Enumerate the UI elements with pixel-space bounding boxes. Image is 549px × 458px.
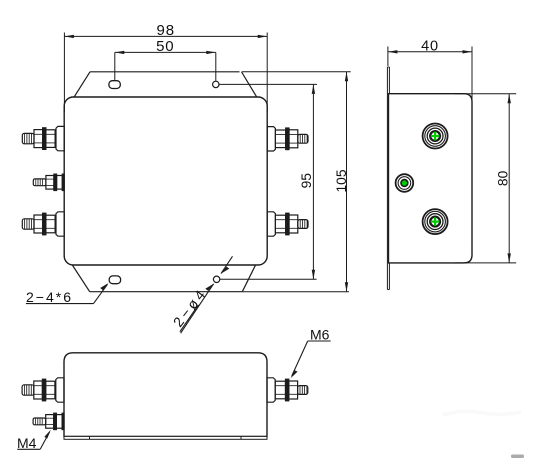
svg-text:M6: M6 bbox=[310, 327, 330, 343]
svg-text:40: 40 bbox=[421, 38, 439, 54]
mounting hole bottom-right bbox=[213, 276, 219, 282]
svg-text:2−4*6: 2−4*6 bbox=[26, 289, 73, 305]
dim 105 extension lines bbox=[242, 71, 351, 73]
dim 95 line bbox=[312, 84, 314, 279]
dim 98 extension lines bbox=[63, 33, 65, 113]
front body bbox=[64, 97, 267, 265]
side terminal middle (M4 face) bbox=[396, 174, 414, 192]
front bottom flange left chamfer bbox=[72, 265, 89, 292]
front top flange left chamfer bbox=[74, 72, 90, 97]
leader 2-o4 upper bbox=[221, 256, 233, 273]
terminal big bottom-right bbox=[267, 378, 308, 402]
dim 40 line bbox=[388, 51, 472, 53]
svg-text:95: 95 bbox=[299, 173, 314, 189]
plate chamfer tick right bbox=[240, 436, 242, 439]
svg-text:105: 105 bbox=[334, 169, 349, 192]
mounting slot top-left bbox=[109, 81, 120, 89]
side body bbox=[389, 94, 473, 263]
faint smudge bottom right bbox=[511, 455, 524, 458]
leader 2-o4 lower bbox=[181, 284, 214, 333]
svg-text:M4: M4 bbox=[17, 435, 37, 451]
dim 50 line bbox=[115, 51, 216, 53]
svg-text:98: 98 bbox=[157, 22, 175, 39]
plate chamfer tick left bbox=[89, 436, 91, 439]
terminal big front-right-top bbox=[267, 127, 308, 151]
side mounting plate bbox=[387, 67, 389, 290]
terminal big front-right-bottom bbox=[267, 212, 308, 236]
terminal small front-left-middle bbox=[33, 174, 64, 190]
bottom body bbox=[64, 353, 267, 437]
dim 95 extension lines bbox=[219, 83, 317, 85]
dim 98 line bbox=[64, 35, 267, 37]
front bottom flange right chamfer bbox=[242, 265, 255, 291]
front top flange right chamfer bbox=[242, 72, 257, 97]
dim 40 extension lines bbox=[387, 47, 389, 67]
side terminal top (M6 face) bbox=[423, 124, 448, 149]
front bottom flange edge bbox=[90, 291, 243, 293]
svg-text:50: 50 bbox=[156, 38, 174, 55]
terminal big front-left-top bbox=[22, 126, 64, 150]
terminal big front-left-bottom bbox=[22, 212, 64, 236]
dim 80 line bbox=[508, 94, 510, 263]
front top flange edge bbox=[90, 71, 240, 73]
side terminal bottom (M6 face) bbox=[423, 209, 448, 234]
bottom base plate bbox=[64, 436, 267, 439]
dim 105 line bbox=[346, 72, 348, 292]
terminal big bottom-left bbox=[22, 378, 64, 402]
dim 50 extension lines bbox=[114, 52, 116, 80]
svg-text:80: 80 bbox=[496, 170, 511, 186]
mounting slot bottom-left bbox=[109, 276, 120, 284]
dim 80 extension lines bbox=[455, 93, 516, 95]
terminal small bottom-left bbox=[33, 413, 64, 429]
mounting hole top-right bbox=[213, 81, 219, 87]
